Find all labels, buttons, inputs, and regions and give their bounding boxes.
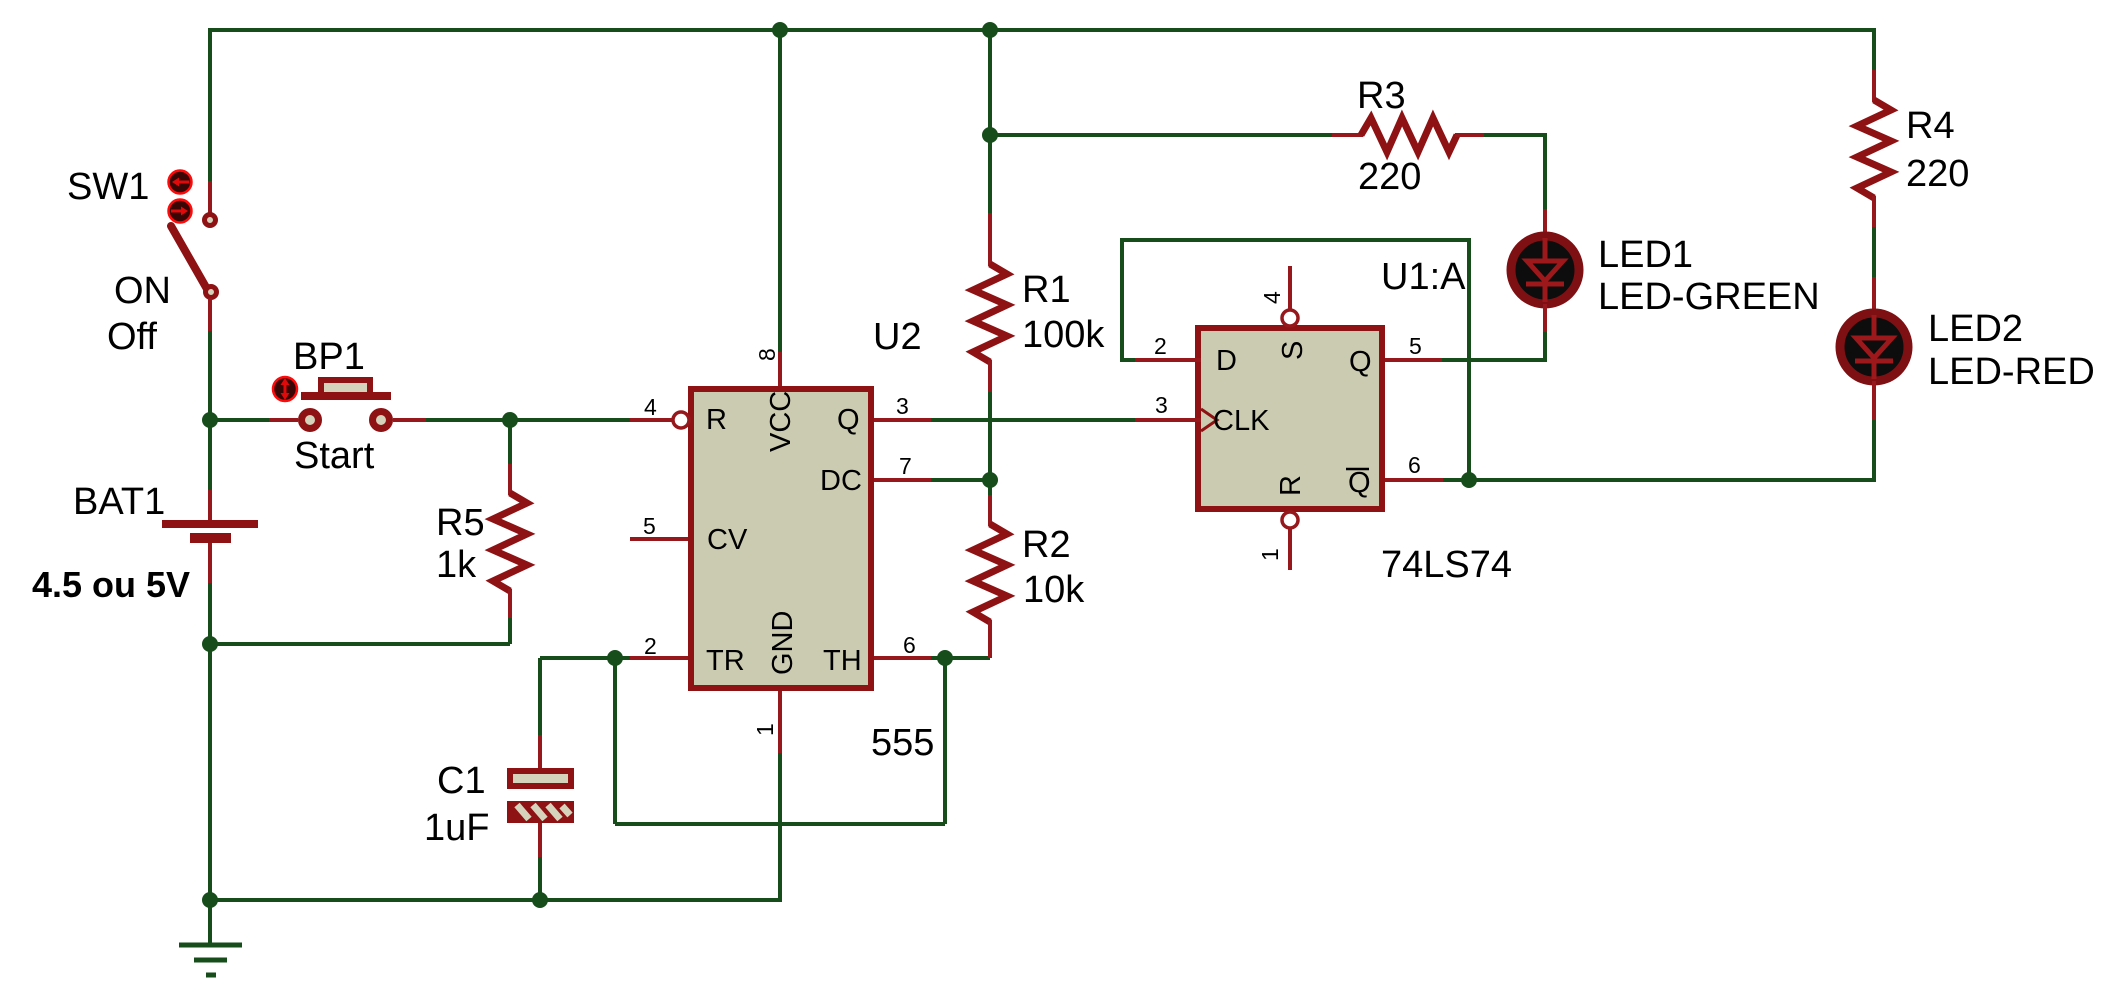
clock wedge [1201, 409, 1217, 431]
svg-text:GND: GND [767, 611, 799, 675]
node junction R5 top [502, 412, 518, 428]
pin 4 R stub with bubble [630, 412, 689, 428]
svg-text:R3: R3 [1357, 75, 1406, 117]
svg-text:R5: R5 [436, 502, 485, 544]
svg-text:CLK: CLK [1213, 405, 1270, 437]
svg-text:CV: CV [707, 524, 748, 556]
wire LED2 to Qbar rail [1872, 420, 1876, 482]
pin 2 TR stub [630, 656, 688, 660]
svg-text:4: 4 [644, 394, 657, 420]
svg-text:6: 6 [1408, 452, 1421, 478]
svg-text:1: 1 [752, 723, 778, 736]
wire left rail upper [208, 28, 212, 181]
wire TR loop down [613, 658, 617, 824]
wire pin1 down [778, 753, 782, 902]
wire left rail mid [208, 331, 212, 490]
wire R3 feed [990, 133, 1332, 137]
wire BP1 left [210, 418, 269, 422]
led LED2 [1840, 277, 1908, 420]
wire R1 branch top [988, 30, 992, 213]
svg-text:5: 5 [1409, 333, 1422, 359]
svg-text:2: 2 [1154, 333, 1167, 359]
pin 6 Qbar stub [1385, 478, 1443, 482]
svg-text:100k: 100k [1022, 314, 1105, 356]
node junction C1 bottom [532, 892, 548, 908]
pushbutton BP1 [269, 377, 426, 429]
switch SW1 [169, 171, 217, 332]
wire DC to R node [931, 478, 990, 482]
svg-text:C1: C1 [437, 760, 486, 802]
node junction R3 tap [982, 127, 998, 143]
node junction DC [982, 472, 998, 488]
node junction Qbar [1461, 472, 1477, 488]
svg-text:LED-GREEN: LED-GREEN [1598, 276, 1820, 318]
resistor R2 [973, 480, 1007, 658]
node junction BP1 tap [202, 412, 218, 428]
node junction ground tap [202, 892, 218, 908]
wire R1 bottom to DC node [988, 392, 992, 480]
svg-text:R1: R1 [1022, 269, 1071, 311]
svg-text:Start: Start [294, 435, 375, 477]
resistor R1 [973, 213, 1007, 392]
svg-text:10k: 10k [1023, 569, 1085, 611]
svg-text:74LS74: 74LS74 [1381, 544, 1512, 586]
svg-text:5: 5 [643, 513, 656, 539]
wire C1 top to TR [540, 656, 630, 660]
svg-text:1: 1 [1257, 548, 1283, 561]
pin 6 TH stub [874, 656, 931, 660]
pin 5 Q stub [1385, 358, 1442, 362]
pin 7 DC stub [874, 478, 931, 482]
wire TH loop up [943, 658, 947, 824]
svg-text:Q: Q [1348, 467, 1371, 499]
svg-text:Off: Off [107, 316, 157, 358]
svg-text:LED1: LED1 [1598, 234, 1693, 276]
wire top rail to R4 [1872, 28, 1876, 70]
74LS74 inner labels [1213, 341, 1372, 499]
svg-text:7: 7 [899, 453, 912, 479]
svg-text:R2: R2 [1022, 524, 1071, 566]
wire R4 to LED2 [1872, 227, 1876, 277]
svg-text:BAT1: BAT1 [73, 481, 165, 523]
wire R5 bottom return [208, 642, 510, 646]
svg-text:1uF: 1uF [424, 807, 489, 849]
pin 8 VCC stub [778, 352, 782, 386]
wire R3 to LED1 [1484, 135, 1545, 209]
svg-text:D: D [1216, 345, 1237, 377]
svg-text:LED-RED: LED-RED [1928, 351, 2095, 393]
pin 1 R stub with bubble [1282, 512, 1298, 570]
svg-text:8: 8 [754, 348, 780, 361]
resistor R3 [1332, 118, 1484, 152]
pin 1 GND stub [778, 691, 782, 753]
node VCC junction at pin8 [772, 22, 788, 38]
svg-text:BP1: BP1 [293, 336, 365, 378]
svg-text:220: 220 [1906, 153, 1969, 195]
resistor R4 [1857, 70, 1891, 227]
svg-text:R: R [1275, 475, 1307, 496]
svg-text:VCC: VCC [765, 391, 797, 452]
wire top rail [208, 28, 1876, 32]
svg-text:4.5 ou 5V: 4.5 ou 5V [32, 564, 190, 605]
pin 3 CLK stub [1135, 418, 1201, 422]
svg-text:LED2: LED2 [1928, 308, 2023, 350]
svg-text:3: 3 [1155, 392, 1168, 418]
wire BP1 to 555 reset [426, 418, 630, 422]
svg-text:220: 220 [1358, 156, 1421, 198]
svg-text:R4: R4 [1906, 105, 1955, 147]
capacitor C1 [507, 658, 574, 900]
node junction TH [937, 650, 953, 666]
svg-text:ON: ON [114, 270, 171, 312]
wire TR loop across [615, 822, 945, 826]
resistor R5 [493, 420, 527, 644]
svg-text:TH: TH [823, 645, 862, 677]
wire Q output to CLK [931, 418, 1135, 422]
wire bottom rail [210, 898, 782, 902]
svg-text:U1:A: U1:A [1381, 256, 1466, 298]
led LED1 [1511, 209, 1579, 332]
wire TH to R2 [931, 656, 990, 660]
wire D feedback loop [1122, 240, 1469, 480]
svg-text:R: R [706, 404, 727, 436]
svg-text:2: 2 [644, 633, 657, 659]
ground [179, 900, 242, 975]
node junction R5 return [202, 636, 218, 652]
svg-text:TR: TR [706, 645, 745, 677]
svg-text:555: 555 [871, 722, 934, 764]
wire LED1 to Q pin5 [1442, 332, 1545, 360]
555 inner labels [706, 391, 862, 677]
svg-text:4: 4 [1259, 291, 1285, 304]
svg-text:SW1: SW1 [67, 166, 149, 208]
op 74LS74 U1:A body [1195, 325, 1385, 512]
pin 5 CV stub [630, 537, 688, 541]
op 555 U2 body [688, 386, 874, 691]
pin 3 Q stub [874, 418, 931, 422]
svg-text:S: S [1277, 341, 1309, 360]
svg-text:DC: DC [820, 465, 862, 497]
node junction top of R1 branch [982, 22, 998, 38]
wire left rail lower [208, 583, 212, 900]
node junction TR [607, 650, 623, 666]
svg-text:Q: Q [837, 404, 860, 436]
pin 4 S stub with bubble [1282, 266, 1298, 326]
svg-text:6: 6 [903, 632, 916, 658]
battery BAT1 [162, 490, 258, 583]
svg-text:1k: 1k [436, 544, 477, 586]
svg-text:U2: U2 [873, 316, 922, 358]
svg-text:Q: Q [1349, 346, 1372, 378]
wire VCC rail to pin8 [778, 30, 782, 352]
svg-text:3: 3 [896, 393, 909, 419]
pin 2 D stub [1135, 358, 1201, 362]
wire Qbar to junction [1443, 478, 1469, 482]
wire Qbar rail to LED2 [1469, 478, 1876, 482]
